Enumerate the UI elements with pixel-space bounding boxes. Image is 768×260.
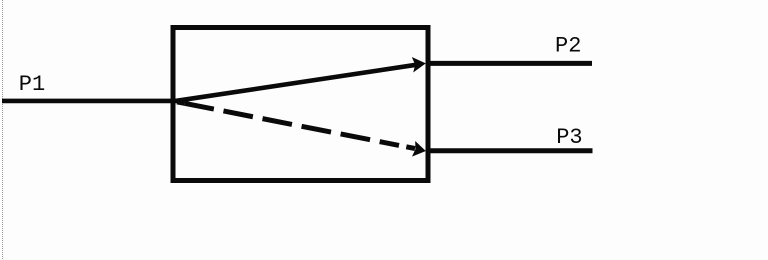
svg-text:P1: P1 — [19, 72, 45, 97]
svg-text:P3: P3 — [556, 125, 582, 150]
svg-text:P2: P2 — [555, 34, 581, 59]
